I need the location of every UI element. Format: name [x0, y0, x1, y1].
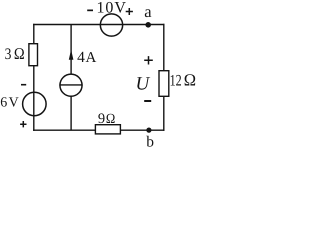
svg-text:b: b: [146, 133, 154, 149]
polarity plus of 6 V: [20, 121, 26, 127]
svg-text:A: A: [86, 50, 97, 66]
svg-text:V: V: [114, 0, 126, 17]
node a: [145, 22, 151, 28]
wire middle branch upper: [70, 25, 72, 75]
voltage source 10 V: [100, 14, 122, 36]
polarity minus of 6 V: [21, 84, 26, 86]
svg-text:6: 6: [0, 95, 7, 110]
svg-text:9: 9: [98, 111, 105, 127]
voltage source 6 V: [23, 92, 47, 116]
svg-text:10: 10: [96, 0, 114, 17]
svg-text:Ω: Ω: [184, 70, 196, 89]
svg-text:Ω: Ω: [14, 44, 25, 63]
current source 4 A arrow: [69, 50, 74, 60]
resistor 9 ohm: [95, 125, 120, 134]
current source 4 A: [60, 74, 82, 96]
svg-text:Ω: Ω: [106, 112, 115, 127]
svg-text:4: 4: [77, 49, 85, 66]
wire bottom: [33, 129, 164, 131]
svg-text:V: V: [9, 95, 19, 110]
polarity minus of 10 V: [87, 10, 93, 12]
svg-text:12: 12: [170, 72, 182, 89]
wire right branch: [163, 24, 165, 131]
svg-text:a: a: [144, 2, 152, 21]
polarity plus of 10 V: [126, 8, 133, 15]
wire top: [33, 24, 164, 26]
node b: [146, 128, 151, 133]
wire middle branch lower: [70, 96, 72, 130]
polarity plus of U: [144, 56, 153, 64]
svg-text:U: U: [136, 74, 151, 95]
resistor 12 ohm: [159, 71, 169, 97]
wire left branch: [33, 24, 35, 131]
svg-text:3: 3: [5, 46, 12, 63]
polarity minus of U: [144, 100, 151, 102]
resistor 3 ohm: [29, 44, 38, 66]
